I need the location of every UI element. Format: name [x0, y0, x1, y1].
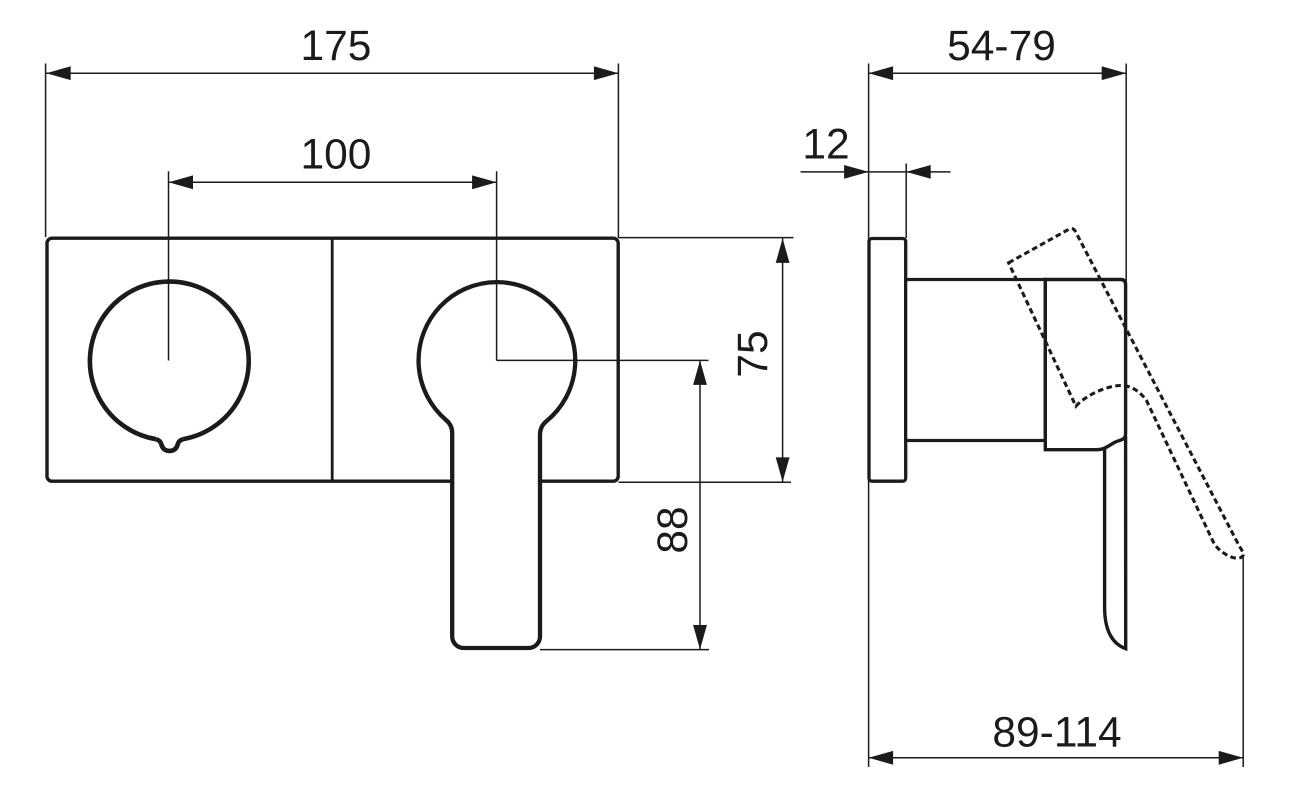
- svg-text:175: 175: [301, 23, 372, 70]
- svg-text:100: 100: [301, 132, 372, 179]
- svg-text:54-79: 54-79: [947, 23, 1056, 70]
- svg-text:88: 88: [650, 506, 697, 553]
- svg-text:89-114: 89-114: [992, 710, 1121, 757]
- svg-text:12: 12: [802, 122, 849, 169]
- svg-text:75: 75: [730, 330, 777, 377]
